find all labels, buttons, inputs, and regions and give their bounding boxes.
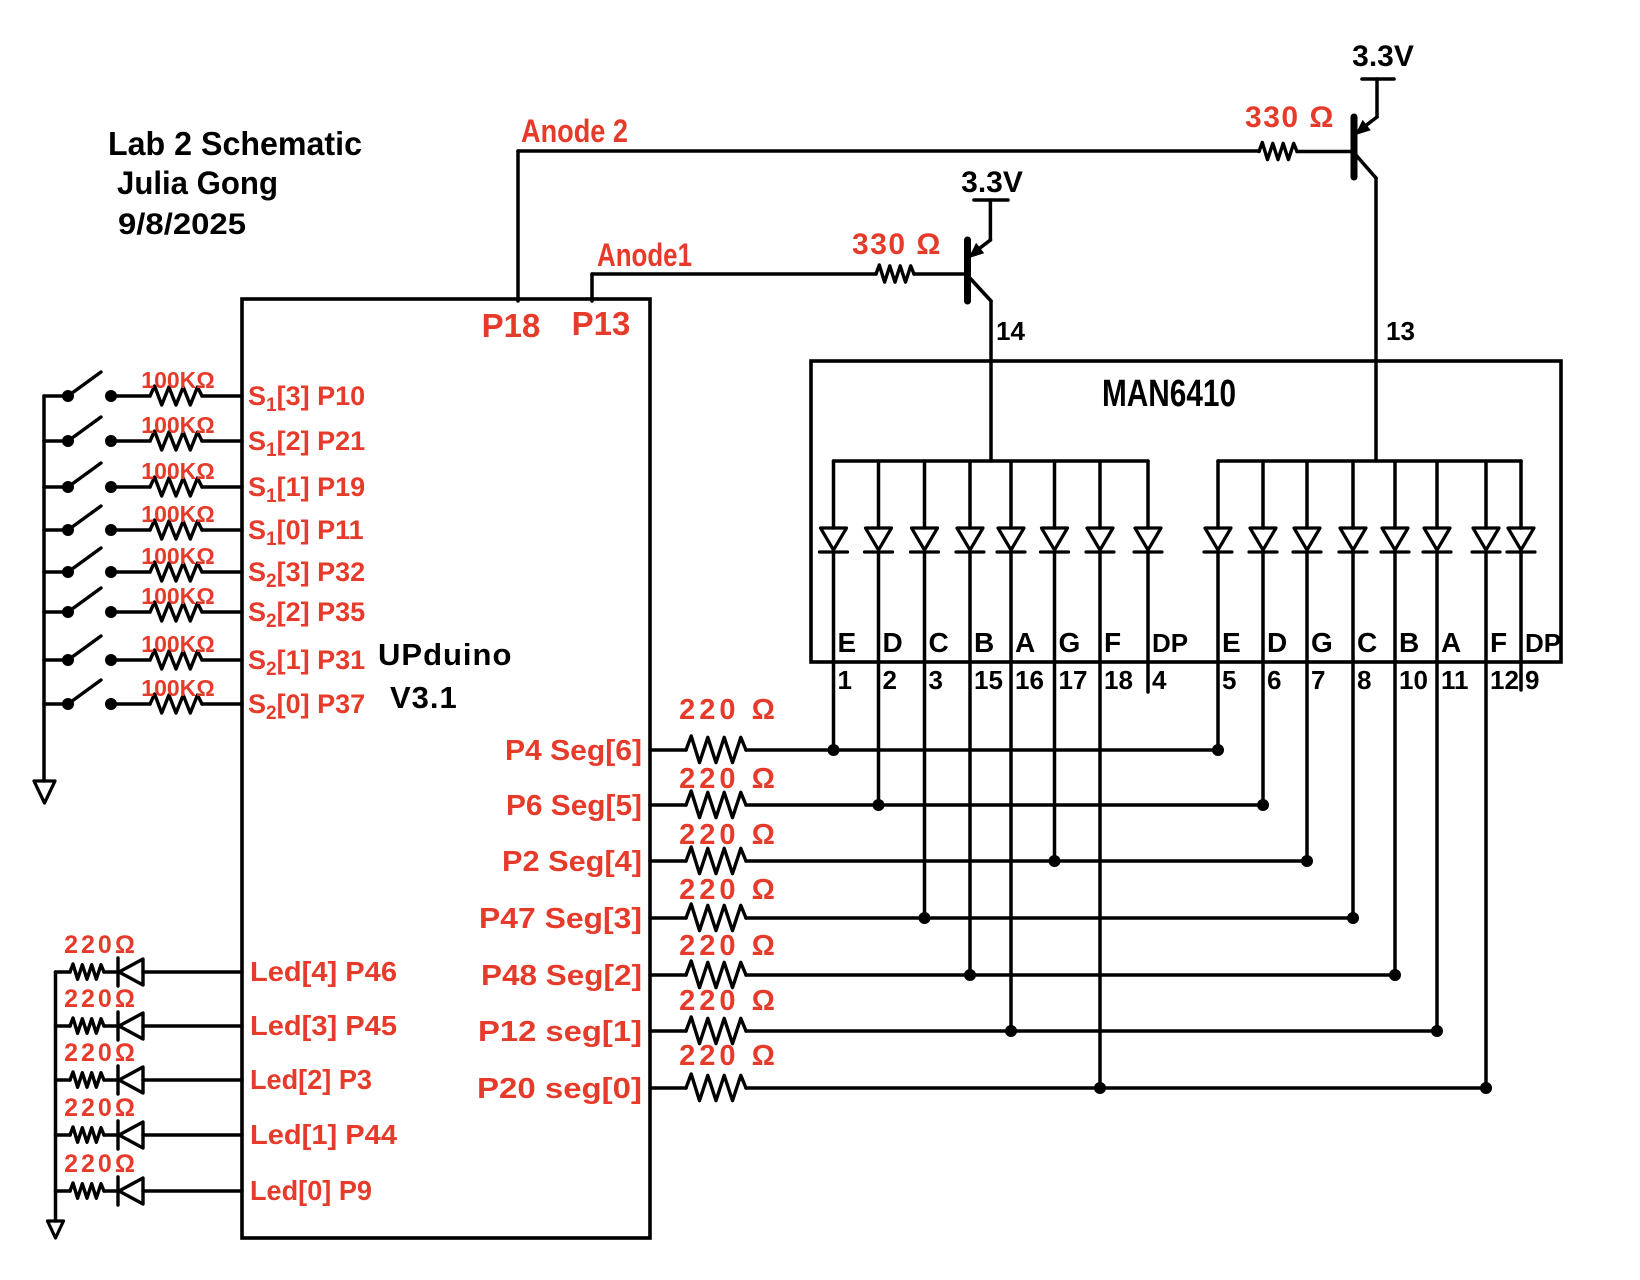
wire switch row 7 to UPduino xyxy=(202,702,242,706)
wire Seg[6] to display xyxy=(746,748,1218,752)
resistor 220 for seg[1] xyxy=(686,1017,746,1044)
svg-text:DP: DP xyxy=(1525,628,1561,658)
wire switch row 3 bus stub xyxy=(44,528,68,532)
LED D3 xyxy=(116,1012,119,1040)
svg-text:220 Ω: 220 Ω xyxy=(679,694,779,726)
resistor 220 for seg[0] xyxy=(686,1074,746,1101)
wire switch row 4 bus stub xyxy=(44,570,68,574)
wire led row 4 from bus xyxy=(56,970,71,974)
wire seg[0] to display xyxy=(746,1086,1486,1090)
resistor 100K for S1[3] xyxy=(150,386,202,405)
svg-text:A: A xyxy=(1015,627,1035,658)
svg-text:Led[1] P44: Led[1] P44 xyxy=(250,1119,397,1150)
svg-text:P47 Seg[3]: P47 Seg[3] xyxy=(479,903,642,935)
LED D0 xyxy=(116,1177,119,1205)
wire led row 1 to UPduino xyxy=(143,1133,242,1137)
wire segment E digit 1 lower xyxy=(832,552,836,750)
junction node Seg[4] digit2 xyxy=(1301,855,1313,867)
wire Q2 base to resistor xyxy=(1297,150,1354,154)
LED segment G digit 1 xyxy=(1042,528,1068,550)
transistor Q1 xyxy=(964,240,971,301)
wire switch row 5 to resistor xyxy=(111,610,150,614)
svg-text:330 Ω: 330 Ω xyxy=(852,228,942,261)
switch S1[0] xyxy=(62,524,74,536)
svg-text:100KΩ: 100KΩ xyxy=(141,412,214,438)
wire segment E digit 2 upper xyxy=(1216,461,1220,528)
wire segment F digit 1 lower xyxy=(1098,552,1102,1088)
svg-text:Anode1: Anode1 xyxy=(597,237,692,273)
wire segment C digit 2 upper xyxy=(1351,461,1355,528)
svg-text:9: 9 xyxy=(1525,665,1539,695)
wire switch row 1 to resistor xyxy=(111,439,150,443)
resistor 220 for Led[2] xyxy=(70,1072,104,1087)
resistor 330 for Q1 base xyxy=(876,265,914,282)
junction node Seg[3] digit2 xyxy=(1347,912,1359,924)
LED D4 xyxy=(116,958,119,986)
resistor 330 for Q2 base xyxy=(1259,143,1297,160)
wire switch row 3 to UPduino xyxy=(202,528,242,532)
wire led row 1 resistor to diode xyxy=(104,1133,118,1137)
wire segment DP digit 2 lower xyxy=(1519,552,1523,690)
svg-text:S1[2] P21: S1[2] P21 xyxy=(248,426,365,461)
wire led row 4 to UPduino xyxy=(143,970,242,974)
LED segment E digit 2 xyxy=(1205,528,1231,550)
anode bus digit 2 xyxy=(1218,459,1521,463)
switch S2[0] xyxy=(62,698,74,710)
svg-text:100KΩ: 100KΩ xyxy=(141,675,214,701)
resistor 220 for Seg[5] xyxy=(686,791,746,818)
switch S1[1] xyxy=(62,481,74,493)
anode bus digit 1 xyxy=(834,459,1149,463)
svg-text:S1[1] P19: S1[1] P19 xyxy=(248,472,365,507)
wire switch row 0 to UPduino xyxy=(202,394,242,398)
junction node Seg[3] digit1 xyxy=(919,912,931,924)
svg-text:F: F xyxy=(1490,627,1507,658)
svg-text:V3.1: V3.1 xyxy=(390,680,458,715)
switch S2[3] xyxy=(62,566,74,578)
svg-text:P6 Seg[5]: P6 Seg[5] xyxy=(506,790,642,822)
wire led row 2 resistor to diode xyxy=(104,1078,118,1082)
svg-text:2: 2 xyxy=(883,665,897,695)
wire led row 3 to UPduino xyxy=(143,1024,242,1028)
ground symbol for LEDs xyxy=(48,1221,64,1238)
resistor 100K for S2[2] xyxy=(150,602,202,621)
LED segment D digit 2 xyxy=(1250,528,1276,550)
wire Seg[3] from UPduino xyxy=(650,916,686,920)
resistor 100K for S1[0] xyxy=(150,520,202,539)
svg-text:220 Ω: 220 Ω xyxy=(679,874,779,906)
wire segment DP digit 2 upper xyxy=(1519,461,1523,528)
wire segment B digit 1 upper xyxy=(968,461,972,528)
svg-text:15: 15 xyxy=(974,665,1003,695)
svg-text:G: G xyxy=(1059,627,1081,658)
wire Seg[3] to display xyxy=(746,916,1353,920)
svg-text:220 Ω: 220 Ω xyxy=(679,985,779,1017)
wire Seg[2] from UPduino xyxy=(650,973,686,977)
resistor 100K for S1[1] xyxy=(150,477,202,496)
wire switch row 0 bus stub xyxy=(44,394,68,398)
LED segment DP digit 1 xyxy=(1135,528,1161,550)
svg-text:DP: DP xyxy=(1152,628,1188,658)
wire led row 2 from bus xyxy=(56,1078,71,1082)
svg-text:Anode 2: Anode 2 xyxy=(521,113,628,149)
svg-text:8: 8 xyxy=(1357,665,1371,695)
junction node Seg[5] digit1 xyxy=(873,799,885,811)
resistor 220 for Led[1] xyxy=(70,1127,104,1142)
svg-text:100KΩ: 100KΩ xyxy=(141,501,214,527)
wire segment B digit 2 upper xyxy=(1393,461,1397,528)
wire segment A digit 2 upper xyxy=(1435,461,1439,528)
svg-text:S2[1] P31: S2[1] P31 xyxy=(248,645,365,680)
wire switch row 3 to resistor xyxy=(111,528,150,532)
LED segment A digit 2 xyxy=(1424,528,1450,550)
svg-text:B: B xyxy=(1399,627,1419,658)
svg-text:C: C xyxy=(929,627,949,658)
LED segment F digit 2 xyxy=(1473,528,1499,550)
switch S1[3] xyxy=(62,390,74,402)
wire Q2 collector to anode bus pin 13 xyxy=(1374,178,1378,461)
svg-text:P20 seg[0]: P20 seg[0] xyxy=(477,1073,642,1105)
wire Anode1 xyxy=(592,272,876,276)
LED segment C digit 2 xyxy=(1340,528,1366,550)
LED segment A digit 1 xyxy=(998,528,1024,550)
wire Seg[6] from UPduino xyxy=(650,748,686,752)
ground symbol for switches xyxy=(34,781,55,803)
svg-text:220 Ω: 220 Ω xyxy=(679,763,779,795)
wire switch row 7 to resistor xyxy=(111,702,150,706)
wire seg[1] from UPduino xyxy=(650,1029,686,1033)
svg-text:220Ω: 220Ω xyxy=(64,1039,138,1067)
wire seg[0] from UPduino xyxy=(650,1086,686,1090)
svg-text:12: 12 xyxy=(1490,665,1519,695)
wire segment F digit 2 lower xyxy=(1484,552,1488,1088)
svg-text:P12 seg[1]: P12 seg[1] xyxy=(478,1016,642,1048)
svg-text:D: D xyxy=(1267,627,1287,658)
switch S1[2] xyxy=(62,435,74,447)
wire segment A digit 1 upper xyxy=(1009,461,1013,528)
svg-text:3.3V: 3.3V xyxy=(961,166,1023,199)
resistor 100K for S2[3] xyxy=(150,562,202,581)
wire switch row 7 bus stub xyxy=(44,702,68,706)
svg-text:220 Ω: 220 Ω xyxy=(679,819,779,851)
wire switch row 2 to UPduino xyxy=(202,485,242,489)
svg-text:P48 Seg[2]: P48 Seg[2] xyxy=(481,960,642,992)
svg-text:Led[3] P45: Led[3] P45 xyxy=(250,1010,397,1041)
svg-text:D: D xyxy=(883,627,903,658)
svg-text:220Ω: 220Ω xyxy=(64,1094,138,1122)
LED ground bus wire xyxy=(54,972,58,1221)
junction node Seg[5] digit2 xyxy=(1257,799,1269,811)
junction node Seg[4] digit1 xyxy=(1049,855,1061,867)
svg-text:18: 18 xyxy=(1104,665,1133,695)
transistor Q2 xyxy=(1351,117,1358,177)
wire segment DP digit 1 lower xyxy=(1146,552,1150,692)
wire Q2 emitter xyxy=(1375,79,1379,117)
wire segment G digit 1 lower xyxy=(1053,552,1057,861)
wire Q1 collector to anode bus pin 14 xyxy=(989,301,993,461)
resistor 100K for S1[2] xyxy=(150,431,202,450)
wire Q1 base to resistor xyxy=(914,272,968,276)
svg-text:Led[0] P9: Led[0] P9 xyxy=(250,1175,372,1206)
svg-text:220Ω: 220Ω xyxy=(64,931,138,959)
resistor 220 for Led[3] xyxy=(70,1018,104,1033)
wire segment C digit 1 upper xyxy=(923,461,927,528)
resistor 100K for S2[0] xyxy=(150,694,202,713)
resistor 220 for Seg[6] xyxy=(686,736,746,763)
svg-text:Lab 2 Schematic: Lab 2 Schematic xyxy=(108,125,362,162)
svg-text:3.3V: 3.3V xyxy=(1352,40,1414,73)
svg-text:220 Ω: 220 Ω xyxy=(679,1040,779,1072)
svg-text:Led[2] P3: Led[2] P3 xyxy=(250,1064,372,1095)
wire switch row 6 bus stub xyxy=(44,658,68,662)
wire segment C digit 2 lower xyxy=(1351,552,1355,918)
LED segment D digit 1 xyxy=(866,528,892,550)
svg-text:5: 5 xyxy=(1222,665,1236,695)
wire switch row 0 to resistor xyxy=(111,394,150,398)
wire segment E digit 2 lower xyxy=(1216,552,1220,750)
wire switch row 4 to UPduino xyxy=(202,570,242,574)
wire switch row 4 to resistor xyxy=(111,570,150,574)
LED D2 xyxy=(116,1066,119,1094)
FPGA board UPduino U1 box xyxy=(242,299,650,1238)
svg-text:330 Ω: 330 Ω xyxy=(1245,101,1335,134)
wire Seg[4] from UPduino xyxy=(650,859,686,863)
wire led row 3 resistor to diode xyxy=(104,1024,118,1028)
wire led row 1 from bus xyxy=(56,1133,71,1137)
svg-text:P18: P18 xyxy=(482,307,541,344)
junction node Seg[6] digit2 xyxy=(1212,744,1224,756)
svg-text:6: 6 xyxy=(1267,665,1281,695)
wire segment D digit 1 upper xyxy=(877,461,881,528)
wire led row 2 to UPduino xyxy=(143,1078,242,1082)
wire segment G digit 2 lower xyxy=(1305,552,1309,861)
wire led row 4 resistor to diode xyxy=(104,970,118,974)
svg-text:S2[2] P35: S2[2] P35 xyxy=(248,597,365,632)
svg-text:1: 1 xyxy=(838,665,852,695)
svg-text:A: A xyxy=(1441,627,1461,658)
wire segment B digit 1 lower xyxy=(968,552,972,975)
svg-text:F: F xyxy=(1104,627,1121,658)
wire Seg[4] to display xyxy=(746,859,1307,863)
wire Seg[5] from UPduino xyxy=(650,803,686,807)
LED segment G digit 2 xyxy=(1294,528,1320,550)
LED segment B digit 1 xyxy=(957,528,983,550)
svg-text:14: 14 xyxy=(996,316,1025,346)
svg-text:S2[0] P37: S2[0] P37 xyxy=(248,689,365,724)
svg-text:220 Ω: 220 Ω xyxy=(679,930,779,962)
junction node Seg[2] digit2 xyxy=(1389,969,1401,981)
svg-text:17: 17 xyxy=(1059,665,1088,695)
svg-text:100KΩ: 100KΩ xyxy=(141,583,214,609)
wire switch row 5 to UPduino xyxy=(202,610,242,614)
svg-text:P2 Seg[4]: P2 Seg[4] xyxy=(502,846,642,878)
LED segment B digit 2 xyxy=(1382,528,1408,550)
wire led row 0 to UPduino xyxy=(143,1189,242,1193)
wire switch row 2 to resistor xyxy=(111,485,150,489)
wire Anode2 xyxy=(518,149,1259,153)
wire segment DP digit 1 upper xyxy=(1146,461,1150,528)
wire segment F digit 1 upper xyxy=(1098,461,1102,528)
wire switch row 1 to UPduino xyxy=(202,439,242,443)
svg-text:S1[3] P10: S1[3] P10 xyxy=(248,381,365,416)
svg-text:S2[3] P32: S2[3] P32 xyxy=(248,557,365,592)
wire Seg[5] to display xyxy=(746,803,1263,807)
LED segment DP digit 2 xyxy=(1508,528,1534,550)
svg-text:UPduino: UPduino xyxy=(378,637,512,672)
wire seg[1] to display xyxy=(746,1029,1437,1033)
wire switch row 2 bus stub xyxy=(44,485,68,489)
wire led row 3 from bus xyxy=(56,1024,71,1028)
svg-text:13: 13 xyxy=(1386,316,1415,346)
svg-text:Julia Gong: Julia Gong xyxy=(117,165,278,201)
LED segment E digit 1 xyxy=(821,528,847,550)
junction node seg[1] digit2 xyxy=(1431,1025,1443,1037)
LED D1 xyxy=(116,1121,119,1149)
svg-text:Led[4] P46: Led[4] P46 xyxy=(250,956,397,987)
svg-text:100KΩ: 100KΩ xyxy=(141,458,214,484)
svg-text:3: 3 xyxy=(929,665,943,695)
wire segment C digit 1 lower xyxy=(923,552,927,918)
resistor 220 for Led[0] xyxy=(70,1183,104,1198)
svg-text:S1[0] P11: S1[0] P11 xyxy=(248,515,364,550)
svg-text:MAN6410: MAN6410 xyxy=(1102,373,1236,415)
svg-text:100KΩ: 100KΩ xyxy=(141,543,214,569)
svg-text:9/8/2025: 9/8/2025 xyxy=(118,208,246,241)
display MAN6410 box xyxy=(811,361,1561,662)
resistor 220 for Seg[4] xyxy=(686,847,746,874)
wire segment B digit 2 lower xyxy=(1393,552,1397,975)
svg-text:7: 7 xyxy=(1311,665,1325,695)
wire Seg[2] to display xyxy=(746,973,1395,977)
resistor 220 for Seg[3] xyxy=(686,904,746,931)
svg-text:P4 Seg[6]: P4 Seg[6] xyxy=(505,735,642,767)
svg-text:E: E xyxy=(1222,627,1241,658)
svg-text:100KΩ: 100KΩ xyxy=(141,631,214,657)
switch ground bus wire xyxy=(42,396,46,781)
svg-text:100KΩ: 100KΩ xyxy=(141,367,214,393)
wire segment G digit 2 upper xyxy=(1305,461,1309,528)
junction node seg[1] digit1 xyxy=(1005,1025,1017,1037)
svg-text:G: G xyxy=(1311,627,1333,658)
junction node Seg[2] digit1 xyxy=(964,969,976,981)
resistor 220 for Seg[2] xyxy=(686,961,746,988)
junction node seg[0] digit1 xyxy=(1094,1082,1106,1094)
svg-text:C: C xyxy=(1357,627,1377,658)
wire switch row 1 bus stub xyxy=(44,439,68,443)
svg-text:220Ω: 220Ω xyxy=(64,1150,138,1178)
wire segment D digit 1 lower xyxy=(877,552,881,805)
svg-text:P13: P13 xyxy=(572,305,631,342)
resistor 100K for S2[1] xyxy=(150,650,202,669)
wire segment E digit 1 upper xyxy=(832,461,836,528)
svg-text:10: 10 xyxy=(1399,665,1428,695)
resistor 220 for Led[4] xyxy=(70,964,104,979)
wire segment D digit 2 lower xyxy=(1261,552,1265,805)
junction node seg[0] digit2 xyxy=(1480,1082,1492,1094)
svg-text:11: 11 xyxy=(1441,665,1469,695)
svg-text:220Ω: 220Ω xyxy=(64,985,138,1013)
wire switch row 5 bus stub xyxy=(44,610,68,614)
LED segment F digit 1 xyxy=(1087,528,1113,550)
svg-text:E: E xyxy=(838,627,857,658)
junction node Seg[6] digit1 xyxy=(828,744,840,756)
svg-text:16: 16 xyxy=(1015,665,1044,695)
wire segment G digit 1 upper xyxy=(1053,461,1057,528)
wire segment D digit 2 upper xyxy=(1261,461,1265,528)
switch S2[2] xyxy=(62,606,74,618)
wire segment A digit 1 lower xyxy=(1009,552,1013,1031)
wire segment F digit 2 upper xyxy=(1484,461,1488,528)
wire switch row 6 to UPduino xyxy=(202,658,242,662)
LED segment C digit 1 xyxy=(912,528,938,550)
wire segment A digit 2 lower xyxy=(1435,552,1439,1031)
wire Q1 emitter xyxy=(989,200,993,240)
switch S2[1] xyxy=(62,654,74,666)
wire switch row 6 to resistor xyxy=(111,658,150,662)
svg-text:4: 4 xyxy=(1152,665,1167,695)
svg-text:B: B xyxy=(974,627,994,658)
wire led row 0 from bus xyxy=(56,1189,71,1193)
wire led row 0 resistor to diode xyxy=(104,1189,118,1193)
